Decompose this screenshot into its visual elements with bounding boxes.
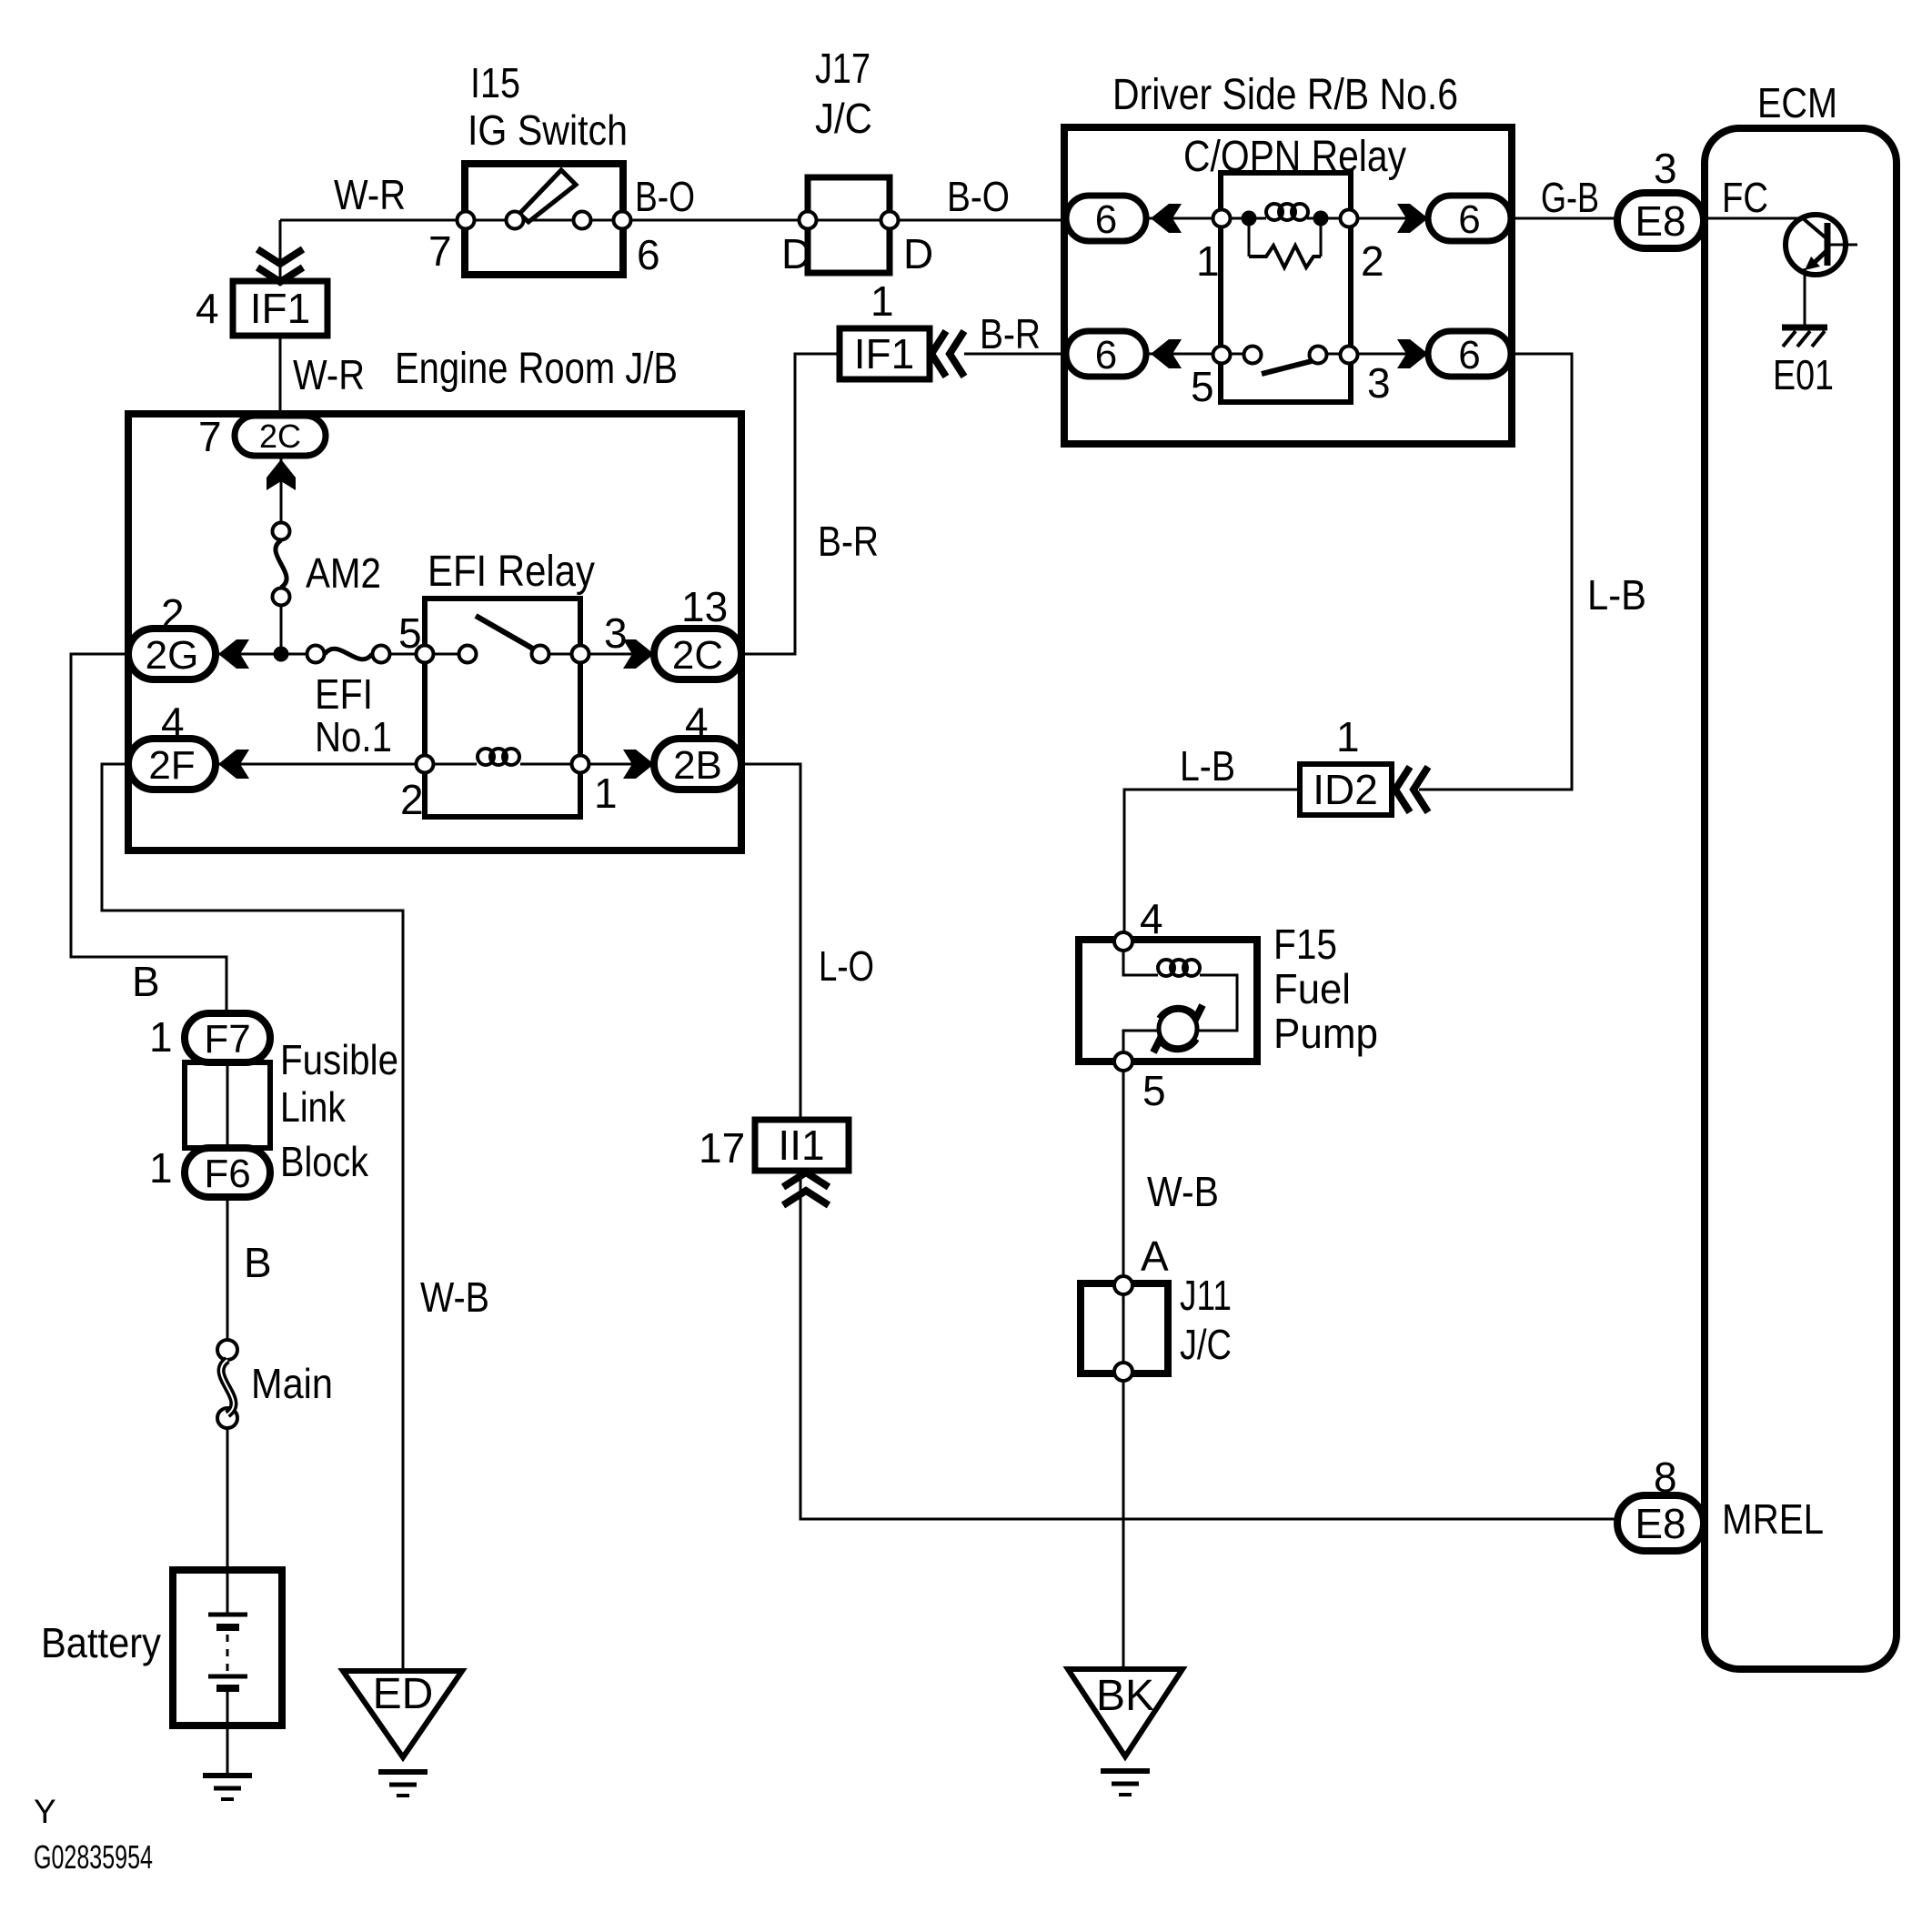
ground below battery — [203, 1776, 252, 1799]
svg-text:Driver Side R/B No.6: Driver Side R/B No.6 — [1112, 71, 1458, 119]
svg-text:B: B — [132, 958, 160, 1005]
svg-text:Link: Link — [280, 1083, 347, 1131]
relay C/OPN box — [1221, 173, 1351, 402]
svg-text:B-O: B-O — [947, 173, 1010, 220]
svg-text:L-B: L-B — [1180, 742, 1235, 790]
oval 6 top-right — [1428, 196, 1511, 241]
wire inside J17 — [808, 219, 890, 222]
svg-text:W-B: W-B — [420, 1273, 489, 1321]
svg-text:6: 6 — [637, 231, 660, 278]
svg-text:Fusible: Fusible — [280, 1036, 398, 1083]
svg-text:L-B: L-B — [1587, 571, 1646, 619]
connector ID2 chevrons — [1395, 767, 1428, 812]
Engine Room J/B border restroke — [128, 414, 741, 850]
ground triangle ED — [343, 1671, 462, 1757]
svg-text:6: 6 — [1458, 197, 1480, 242]
svg-text:B-O: B-O — [635, 173, 695, 220]
battery internals — [226, 1570, 229, 1615]
oval 6 bottom-left — [1066, 331, 1146, 377]
wire 2C oval to AM2 fuse — [280, 458, 283, 531]
junction J11 box — [1081, 1283, 1168, 1374]
connector IF1 chevrons left-pointing — [931, 331, 964, 377]
wire 2G row to EFI fuse — [216, 653, 316, 656]
svg-text:7: 7 — [428, 227, 452, 275]
svg-text:F6: F6 — [204, 1152, 250, 1196]
svg-text:ED: ED — [373, 1670, 434, 1718]
svg-text:F15: F15 — [1273, 921, 1337, 968]
fuel pump F15 box — [1079, 940, 1257, 1062]
svg-text:II1: II1 — [778, 1122, 824, 1169]
svg-text:L-O: L-O — [819, 942, 874, 990]
wire G-B oval 6 to E8 — [1511, 217, 1617, 220]
svg-text:2: 2 — [400, 776, 424, 823]
fuse AM2 — [273, 523, 290, 540]
wire W-B fuel pump to J11 — [1122, 1071, 1125, 1285]
svg-text:1: 1 — [1196, 237, 1220, 285]
oval 6 bottom-right — [1428, 331, 1511, 377]
wire F6 to Main fuse — [226, 1197, 229, 1340]
svg-text:3: 3 — [1654, 145, 1677, 192]
svg-text:J/C: J/C — [815, 95, 872, 142]
wire C/OPN coil row — [1146, 217, 1428, 220]
oval F7 — [185, 1013, 270, 1062]
svg-text:D: D — [781, 230, 811, 277]
wire L-B: oval 6 down to ID2 — [1419, 354, 1572, 790]
fuse Main — [217, 1340, 237, 1360]
fuel pump coil — [1158, 960, 1174, 976]
wire through fusible link block — [226, 1062, 229, 1148]
svg-text:13: 13 — [681, 583, 728, 630]
svg-text:G02835954: G02835954 — [34, 1838, 153, 1876]
svg-text:J11: J11 — [1180, 1272, 1232, 1319]
arrow into oval TL — [1151, 204, 1182, 233]
connector IF1 chevron — [257, 249, 303, 282]
relay switch pins — [1213, 347, 1231, 364]
svg-text:1: 1 — [870, 277, 894, 325]
ECM box — [1705, 128, 1897, 1669]
svg-text:17: 17 — [699, 1124, 745, 1172]
svg-text:E01: E01 — [1773, 351, 1834, 398]
svg-text:J17: J17 — [815, 45, 870, 92]
wire J11 to BK ground — [1122, 1381, 1125, 1669]
relay switch blade — [1262, 361, 1312, 374]
relay EFI bottom pins — [417, 756, 434, 773]
relay EFI box — [425, 599, 580, 817]
connector E8 FC oval — [1617, 193, 1704, 248]
wire battery to ground — [226, 1726, 229, 1773]
svg-text:6: 6 — [1095, 197, 1117, 242]
wire C/OPN switch row left — [1146, 353, 1253, 356]
ECM left edge restroke at MREL — [1701, 1474, 1708, 1574]
wire 2F left W-B to ED ground — [102, 764, 403, 1671]
junction dot 2G row — [274, 647, 289, 662]
oval 2C pin 13 — [654, 629, 741, 679]
arrow into 2F — [218, 750, 249, 779]
svg-text:3: 3 — [1367, 359, 1391, 407]
Engine Room J/B box — [128, 414, 741, 850]
svg-text:6: 6 — [1458, 333, 1480, 377]
svg-text:E8: E8 — [1635, 197, 1685, 245]
ground triangle BK — [1068, 1669, 1182, 1756]
svg-text:1: 1 — [594, 770, 618, 817]
transistor in ECM — [1786, 215, 1846, 275]
svg-text:1: 1 — [149, 1013, 173, 1061]
wire inside IG switch — [466, 219, 622, 222]
wire C/OPN switch row right — [1318, 353, 1428, 356]
svg-text:3: 3 — [604, 609, 628, 657]
relay EFI top pins — [417, 646, 434, 663]
svg-text:ECM: ECM — [1757, 79, 1837, 126]
svg-text:7: 7 — [198, 413, 222, 460]
wire relay coil to pin 1 and 2B — [520, 763, 654, 766]
wire L-O: 2B right, down, MREL to ECM E8 — [741, 764, 1617, 1519]
wire B-O J17 to R/B — [890, 219, 1066, 222]
arrow up into 2C — [267, 459, 296, 490]
arrow into oval BL — [1151, 339, 1182, 368]
svg-text:2C: 2C — [259, 418, 301, 455]
svg-text:AM2: AM2 — [306, 549, 381, 597]
fuse EFI No.1 — [307, 646, 325, 663]
svg-text:Battery: Battery — [41, 1619, 161, 1666]
wire W-R from IF1 junction to IG switch — [280, 219, 465, 222]
connector E8 MREL oval — [1617, 1495, 1704, 1551]
fuel pump pins — [1114, 932, 1132, 951]
switch I15 IG Switch box — [465, 164, 623, 275]
switch pins — [458, 212, 475, 229]
relay EFI blade — [476, 616, 538, 651]
connector II1 chevrons up — [783, 1172, 829, 1205]
wire B-R IF1 to R/B oval 6 — [964, 353, 1066, 356]
connector II1 box — [755, 1120, 849, 1171]
svg-text:4: 4 — [196, 285, 219, 332]
relay EFI coil — [478, 749, 494, 765]
wire 2G left B to fusible link F7 — [71, 654, 226, 1013]
arrow into 2G — [218, 639, 249, 669]
wire fuel pump internals — [1123, 951, 1237, 1052]
battery box — [173, 1570, 282, 1726]
Driver Side R/B No.6 box — [1064, 127, 1512, 444]
wire FC from E8 to transistor — [1704, 217, 1803, 220]
svg-text:2: 2 — [1361, 237, 1384, 285]
svg-text:IG Switch: IG Switch — [468, 106, 628, 154]
svg-text:BK: BK — [1096, 1672, 1154, 1720]
svg-text:2G: 2G — [146, 633, 199, 678]
wire vertical down to connector IF1 — [279, 220, 282, 281]
relay coil pins — [1213, 210, 1231, 227]
svg-text:E8: E8 — [1635, 1500, 1685, 1547]
wire relay pin 3 row — [532, 653, 654, 656]
fusible link block box — [185, 1062, 270, 1148]
arrow into 2B — [623, 750, 654, 779]
svg-text:FC: FC — [1722, 174, 1768, 221]
svg-text:6: 6 — [1095, 333, 1117, 377]
wire EFI fuse to relay pin 5 — [381, 653, 476, 656]
connector ID2 box — [1300, 764, 1392, 815]
svg-text:IF1: IF1 — [250, 285, 310, 332]
svg-text:EFI: EFI — [315, 670, 373, 718]
svg-text:1: 1 — [149, 1144, 173, 1192]
svg-text:IF1: IF1 — [854, 330, 914, 377]
svg-text:I15: I15 — [470, 59, 520, 106]
svg-text:W-R: W-R — [334, 171, 406, 218]
oval F6 — [185, 1148, 270, 1197]
wire Main fuse to battery — [226, 1428, 229, 1570]
svg-text:Block: Block — [280, 1138, 369, 1185]
connector IF1 box — [233, 281, 327, 336]
svg-text:B-R: B-R — [980, 310, 1041, 357]
svg-text:ID2: ID2 — [1313, 766, 1378, 813]
ground E01 hatched — [1782, 325, 1827, 331]
relay coil junction dots — [1242, 211, 1257, 226]
svg-text:F7: F7 — [204, 1017, 250, 1062]
relay resistor — [1249, 226, 1321, 257]
wire 2F row to relay pin 2 — [216, 763, 477, 766]
oval 6 top-left — [1066, 196, 1146, 241]
svg-text:4: 4 — [1140, 895, 1163, 942]
junction J17 box — [808, 177, 890, 273]
svg-text:Main: Main — [251, 1360, 333, 1407]
svg-text:W-R: W-R — [293, 351, 365, 398]
svg-text:No.1: No.1 — [315, 713, 392, 760]
svg-text:B: B — [244, 1239, 272, 1286]
arrow into oval BR — [1397, 339, 1428, 368]
Driver Side R/B border restroke — [1064, 127, 1512, 444]
svg-text:J/C: J/C — [1180, 1321, 1232, 1368]
svg-text:Pump: Pump — [1273, 1010, 1378, 1057]
wire L-B ID2 to fuel pump pin 4 — [1124, 790, 1300, 941]
svg-text:2C: 2C — [672, 633, 723, 678]
svg-text:Engine Room J/B: Engine Room J/B — [395, 345, 678, 393]
wire inside J11 — [1122, 1285, 1125, 1372]
svg-text:D: D — [903, 230, 933, 277]
arrow into oval TR — [1397, 204, 1428, 233]
switch lever — [519, 170, 576, 222]
svg-text:1: 1 — [1336, 713, 1360, 760]
wire B-O IG switch to J17 — [623, 219, 808, 222]
wire AM2 fuse to junction — [280, 597, 283, 654]
svg-text:2F: 2F — [148, 743, 195, 788]
svg-text:Y: Y — [34, 1793, 56, 1830]
svg-text:MREL: MREL — [1722, 1495, 1824, 1543]
svg-text:A: A — [1141, 1233, 1169, 1280]
svg-text:W-B: W-B — [1147, 1168, 1219, 1215]
wire IF1 to Engine Room J/B — [279, 336, 282, 416]
oval 2B — [654, 739, 741, 790]
svg-text:Fuel: Fuel — [1273, 965, 1351, 1012]
svg-text:2B: 2B — [673, 743, 722, 788]
wire B-R: 2C13 right, up, to IF1 — [741, 354, 840, 654]
svg-text:5: 5 — [1191, 363, 1214, 410]
svg-text:EFI Relay: EFI Relay — [428, 548, 595, 596]
relay coil — [1266, 204, 1283, 220]
svg-text:5: 5 — [1142, 1067, 1166, 1114]
arrow into 2C13 — [623, 639, 654, 669]
svg-text:B-R: B-R — [818, 518, 879, 565]
fuel pump motor — [1159, 1010, 1197, 1048]
svg-text:G-B: G-B — [1541, 174, 1599, 221]
